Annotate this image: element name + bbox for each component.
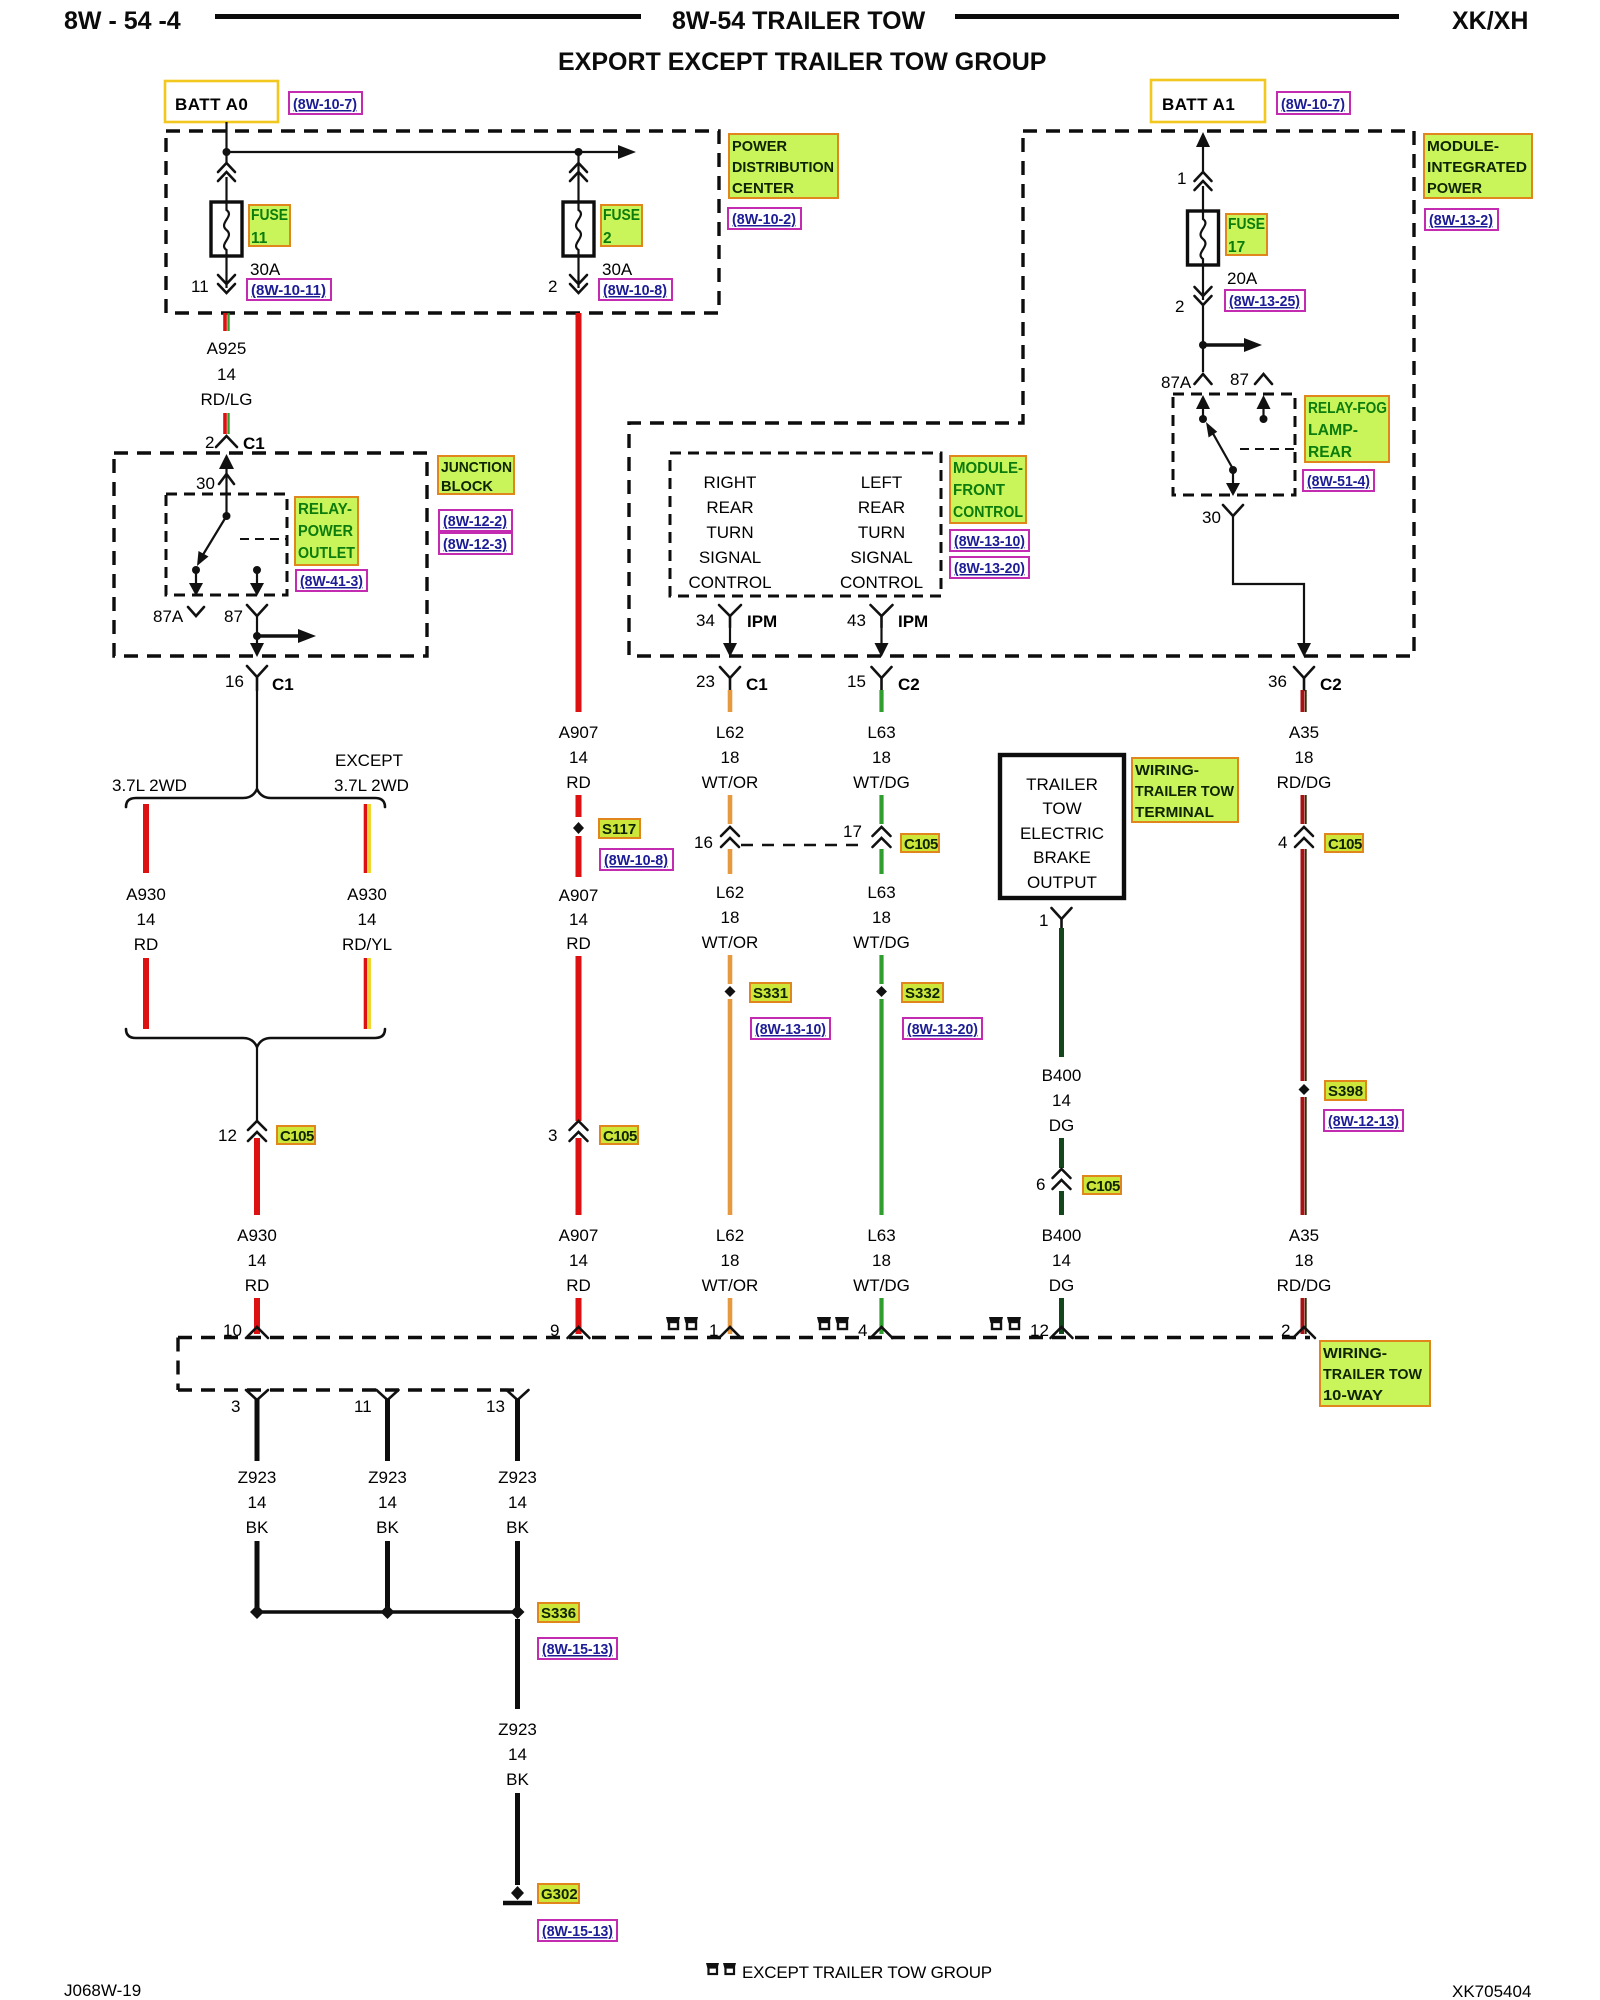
battery feed box BATT A1 (1151, 80, 1265, 122)
svg-text:RD: RD (245, 1276, 270, 1295)
power distribution center dashed box (166, 131, 719, 313)
splice S336 tie bar (250, 1605, 525, 1619)
connector chevrons above fuse 2 (570, 152, 587, 202)
wire label Z923 14 BK (2) (368, 1468, 407, 1537)
svg-text:10-WAY: 10-WAY (1323, 1387, 1383, 1404)
svg-text:REAR: REAR (1308, 444, 1352, 461)
svg-text:18: 18 (872, 748, 891, 767)
svg-text:ELECTRIC: ELECTRIC (1020, 824, 1104, 843)
connector pin 13 at 10-way (486, 1390, 529, 1416)
C105 harness dashed link (741, 844, 862, 847)
pin 87 connector (224, 605, 267, 645)
relay contact 87 arm (250, 566, 264, 596)
svg-text:A930: A930 (126, 885, 166, 904)
svg-text:FUSE: FUSE (251, 207, 288, 224)
wire L62 from C1-23 (728, 690, 733, 712)
svg-text:TERMINAL: TERMINAL (1135, 804, 1214, 821)
svg-text:11: 11 (354, 1397, 372, 1416)
svg-text:FUSE: FUSE (603, 207, 640, 224)
svg-text:REAR: REAR (706, 498, 753, 517)
callout C105 (pin 4) (1325, 834, 1363, 853)
footer legend marker icons (706, 1963, 736, 1974)
svg-text:RELAY-: RELAY- (298, 501, 352, 518)
svg-text:A925: A925 (207, 339, 247, 358)
svg-text:(8W-10-11): (8W-10-11) (251, 282, 326, 299)
svg-text:WT/DG: WT/DG (853, 773, 910, 792)
wire label L63 18 WT/DG (lower) (853, 1226, 910, 1295)
svg-text:L62: L62 (716, 883, 744, 902)
wire L63 to splice S332 (879, 955, 883, 984)
svg-text:16: 16 (225, 672, 244, 691)
wire label A35 18 RD/DG (lower) (1277, 1226, 1332, 1295)
svg-text:16: 16 (694, 833, 713, 852)
svg-text:87A: 87A (1161, 373, 1192, 392)
svg-text:WT/DG: WT/DG (853, 1276, 910, 1295)
svg-text:BK: BK (506, 1518, 529, 1537)
wire B400 to 10-way pin 12 (1059, 1298, 1064, 1334)
link 8W-10-7 (right) (1277, 92, 1350, 114)
svg-text:14: 14 (569, 910, 588, 929)
svg-text:TURN: TURN (706, 523, 753, 542)
svg-text:13: 13 (486, 1397, 505, 1416)
svg-text:C105: C105 (603, 1128, 637, 1145)
svg-text:CONTROL: CONTROL (688, 573, 771, 592)
svg-text:XK705404: XK705404 (1452, 1982, 1531, 2000)
link 8W-13-10 (S331) (751, 1018, 830, 1039)
svg-text:POWER: POWER (298, 523, 353, 540)
header rule left (215, 14, 641, 19)
wire label A35 18 RD/DG (upper) (1277, 723, 1332, 792)
svg-text:Z923: Z923 (498, 1468, 537, 1487)
svg-text:BRAKE: BRAKE (1033, 848, 1091, 867)
callout C105 (pin 12) (277, 1126, 315, 1145)
link 8W-10-11 (247, 279, 331, 300)
link 8W-12-3 (439, 533, 512, 554)
splice S117 (573, 822, 584, 834)
wire into JB pin 30 with arrowhead (219, 454, 234, 494)
wire exits JB with arrowhead (250, 643, 264, 657)
wire A930 lower left (RD) (143, 958, 149, 1029)
link 8W-13-25 (1225, 290, 1305, 311)
svg-text:BK: BK (246, 1518, 269, 1537)
svg-text:L63: L63 (867, 883, 895, 902)
wire Z923 lower 3 (515, 1541, 520, 1612)
link 8W-15-13 (G302) (538, 1920, 617, 1941)
svg-text:TOW: TOW (1042, 799, 1081, 818)
svg-text:3: 3 (231, 1397, 240, 1416)
svg-text:POWER: POWER (732, 138, 787, 155)
svg-text:RD: RD (566, 934, 591, 953)
svg-text:(8W-15-13): (8W-15-13) (542, 1923, 613, 1940)
svg-text:S331: S331 (753, 985, 788, 1002)
svg-text:EXCEPT: EXCEPT (335, 751, 403, 770)
svg-text:IPM: IPM (898, 612, 928, 631)
svg-text:RD/DG: RD/DG (1277, 773, 1332, 792)
battery feed box BATT A0 (165, 81, 278, 122)
IPM pin 34 connector (696, 605, 777, 631)
svg-text:(8W-13-10): (8W-13-10) (954, 533, 1025, 550)
svg-text:14: 14 (508, 1493, 527, 1512)
svg-text:4: 4 (1278, 833, 1287, 852)
wire A35 from C2-36 (RD/DG) (1303, 690, 1306, 712)
connector pin 9 at 10-way (550, 1321, 590, 1340)
node junction at PDC feed (223, 148, 231, 156)
relay pin 87 chevron (1230, 370, 1272, 389)
wire label B400 14 DG (upper) (1042, 1066, 1082, 1135)
svg-text:C105: C105 (1328, 836, 1362, 853)
svg-text:(8W-10-7): (8W-10-7) (1281, 96, 1345, 113)
wire B400 to C105 (1059, 1138, 1064, 1168)
svg-text:C1: C1 (746, 675, 768, 694)
svg-text:B400: B400 (1042, 1066, 1082, 1085)
wire Z923 drop 1 (255, 1399, 260, 1461)
svg-text:CENTER: CENTER (732, 180, 794, 197)
wire L62 below C105 (728, 849, 733, 874)
callout S398 (1325, 1081, 1366, 1100)
svg-text:B400: B400 (1042, 1226, 1082, 1245)
svg-text:87: 87 (224, 607, 243, 626)
svg-text:WT/OR: WT/OR (702, 933, 759, 952)
wire Z923 to ground lower (515, 1793, 520, 1885)
svg-text:MODULE-: MODULE- (1427, 138, 1499, 155)
svg-text:(8W-10-8): (8W-10-8) (603, 282, 667, 299)
svg-text:TRAILER TOW: TRAILER TOW (1135, 783, 1235, 800)
svg-text:2: 2 (1175, 297, 1184, 316)
svg-text:SIGNAL: SIGNAL (850, 548, 912, 567)
svg-text:14: 14 (569, 1251, 588, 1270)
svg-text:14: 14 (137, 910, 156, 929)
callout JUNCTION BLOCK (438, 456, 514, 495)
fuse F2 (563, 202, 594, 256)
svg-text:POWER: POWER (1427, 180, 1482, 197)
connector C105 pin 12 (218, 1121, 266, 1145)
svg-text:BATT A1: BATT A1 (1162, 95, 1235, 114)
splice S331 (725, 986, 736, 997)
svg-text:2: 2 (603, 230, 612, 247)
wire Z923 lower 2 (385, 1541, 390, 1612)
wire A907 down to C105 (576, 956, 582, 1121)
connector C2 pin 15 (847, 667, 920, 694)
wire PDC internal bus with arrow (227, 145, 637, 159)
svg-text:(8W-10-8): (8W-10-8) (604, 852, 668, 869)
wire from C1-16 down to split (256, 690, 258, 789)
pin 2 label (fuse 17) (1175, 297, 1184, 316)
svg-text:RELAY-FOG: RELAY-FOG (1308, 400, 1387, 417)
wire label A907 14 RD (upper) (559, 723, 599, 792)
svg-text:18: 18 (1295, 1251, 1314, 1270)
svg-text:3.7L 2WD: 3.7L 2WD (334, 776, 409, 795)
page subtitle (558, 48, 1046, 76)
link 8W-41-3 (296, 570, 367, 591)
connector chevrons above fuse 11 (218, 163, 235, 202)
svg-text:TRAILER: TRAILER (1026, 775, 1098, 794)
svg-text:BATT A0: BATT A0 (175, 95, 248, 114)
wire A35 to C105 (1303, 795, 1306, 824)
svg-text:IPM: IPM (747, 612, 777, 631)
turn signal control inner dashed box (670, 453, 941, 596)
wire label A907 14 RD (lower) (559, 1226, 599, 1295)
trailer tow electric brake output box (1000, 755, 1124, 898)
svg-text:LEFT: LEFT (861, 473, 903, 492)
svg-text:RD/DG: RD/DG (1277, 1276, 1332, 1295)
connector C105 pin 17 (843, 822, 891, 847)
wire L63 from C2-15 (879, 690, 883, 712)
svg-text:11: 11 (251, 230, 268, 247)
svg-text:DG: DG (1049, 1116, 1075, 1135)
wire Z923 drop 3 (515, 1399, 520, 1461)
wire L63 below splice (879, 999, 883, 1215)
svg-text:36: 36 (1268, 672, 1287, 691)
link 8W-12-2 (439, 510, 512, 531)
wire relay 30 to C2-36 (1233, 516, 1311, 657)
svg-text:87A: 87A (153, 607, 184, 626)
svg-text:12: 12 (218, 1126, 237, 1145)
connector C105 pin 4 (1278, 827, 1313, 852)
svg-text:CONTROL: CONTROL (953, 504, 1023, 521)
splice S332 (876, 986, 887, 997)
wire A907 stub below splice (576, 836, 582, 877)
connector chevrons below fuse 2 (570, 256, 587, 293)
connector C105 pin 6 (1036, 1169, 1071, 1194)
wire label L62 18 WT/OR (middle) (702, 883, 759, 952)
link 8W-13-20 (module) (950, 557, 1029, 578)
link 8W-12-13 (S398) (1324, 1110, 1403, 1131)
callout FUSE 2 (601, 205, 642, 247)
svg-text:2: 2 (548, 277, 557, 296)
svg-text:(8W-12-2): (8W-12-2) (443, 513, 507, 530)
connector chevrons below fuse 11 (218, 256, 235, 293)
wire L63 to C105 (879, 795, 883, 824)
wire A930 to 10-way pin 10 (254, 1298, 260, 1334)
link 8W-15-13 (S336) (538, 1638, 617, 1659)
svg-text:A930: A930 (347, 885, 387, 904)
svg-text:WT/DG: WT/DG (853, 933, 910, 952)
wire L62 to splice S331 (728, 955, 733, 984)
svg-text:(8W-13-2): (8W-13-2) (1429, 212, 1493, 229)
link 8W-51-4 (1303, 470, 1374, 491)
connector pin 10 at 10-way (223, 1321, 268, 1340)
svg-text:C1: C1 (243, 434, 265, 453)
pin 30 chevron (196, 474, 234, 493)
wire from BATT A0 into PDC (225, 122, 227, 165)
pin 11 label (191, 277, 209, 296)
wire label L63 18 WT/DG (upper) (853, 723, 910, 792)
svg-text:18: 18 (872, 1251, 891, 1270)
svg-text:3.7L 2WD: 3.7L 2WD (112, 776, 187, 795)
page header title center (672, 7, 926, 35)
svg-text:17: 17 (1228, 239, 1245, 256)
svg-text:MODULE-: MODULE- (953, 460, 1023, 477)
callout C105 (pin 6) (1083, 1176, 1121, 1195)
svg-text:C1: C1 (272, 675, 294, 694)
wire label A930 14 RD (126, 885, 166, 954)
connector C2 pin 36 (1268, 667, 1342, 694)
svg-text:(8W-12-3): (8W-12-3) (443, 536, 507, 553)
svg-text:11: 11 (191, 277, 209, 296)
svg-text:XK/XH: XK/XH (1452, 7, 1528, 35)
wire A925 stub 2 (225, 413, 229, 434)
ground G302 symbol (503, 1886, 532, 1903)
svg-text:RIGHT: RIGHT (704, 473, 757, 492)
svg-text:23: 23 (696, 672, 715, 691)
svg-text:(8W-15-13): (8W-15-13) (542, 1641, 613, 1658)
svg-text:A930: A930 (237, 1226, 277, 1245)
svg-text:RD/LG: RD/LG (201, 390, 253, 409)
wire IPM 43 exits with arrowhead (875, 627, 889, 657)
svg-text:G302: G302 (541, 1886, 578, 1903)
svg-text:43: 43 (847, 611, 866, 630)
label RIGHT REAR TURN SIGNAL CONTROL (688, 473, 771, 592)
callout MODULE-INTEGRATED POWER (1424, 134, 1532, 198)
svg-text:C105: C105 (1086, 1178, 1120, 1195)
svg-text:14: 14 (217, 365, 236, 384)
callout FUSE 11 (249, 205, 290, 247)
svg-text:C2: C2 (1320, 675, 1342, 694)
connector pin 4 at 10-way (858, 1321, 893, 1340)
svg-text:18: 18 (721, 1251, 740, 1270)
svg-text:A35: A35 (1289, 723, 1319, 742)
svg-text:(8W-12-13): (8W-12-13) (1328, 1113, 1399, 1130)
svg-text:(8W-51-4): (8W-51-4) (1307, 473, 1370, 490)
connector pin 11 at 10-way (354, 1390, 399, 1416)
relay-fog lamp rear dashed box (1173, 394, 1295, 495)
wire label A925 14 RD/LG (201, 339, 253, 409)
relay K2 coil dashed link (1240, 448, 1295, 450)
svg-text:DISTRIBUTION: DISTRIBUTION (732, 159, 834, 176)
relay K1 internals: pivot and movable contact (197, 494, 231, 566)
wire label A930 14 RD/YL (342, 885, 392, 954)
connector C1 pin 16 (225, 666, 294, 694)
svg-text:2: 2 (205, 433, 214, 452)
svg-text:30: 30 (196, 474, 215, 493)
svg-text:14: 14 (1052, 1091, 1071, 1110)
connector pin 2 at 10-way (1281, 1321, 1315, 1340)
fuse 2 rating 30A (602, 260, 633, 279)
svg-text:A907: A907 (559, 723, 599, 742)
page header title right (1452, 7, 1528, 35)
wire B400 below C105 (1059, 1191, 1064, 1215)
link 8W-10-8 (fuse 2) (599, 279, 672, 300)
wire IPM 34 exits with arrowhead (723, 627, 737, 657)
link 8W-13-10 (module) (950, 530, 1029, 551)
svg-text:(8W-41-3): (8W-41-3) (300, 573, 363, 590)
page header title left (64, 7, 181, 35)
svg-text:14: 14 (1052, 1251, 1071, 1270)
wire to BATT A1 with arrowhead (1196, 132, 1210, 172)
connector pin 3 at 10-way (231, 1390, 268, 1416)
svg-text:18: 18 (872, 908, 891, 927)
svg-text:A35: A35 (1289, 1226, 1319, 1245)
wire label Z923 14 BK (1) (238, 1468, 277, 1537)
callout RELAY-FOG LAMP-REAR (1305, 396, 1389, 462)
svg-text:TRAILER TOW: TRAILER TOW (1323, 1366, 1423, 1383)
brace merge bottom (126, 1029, 385, 1047)
svg-text:C105: C105 (904, 836, 938, 853)
svg-text:WIRING-: WIRING- (1323, 1345, 1387, 1362)
svg-text:J068W-19: J068W-19 (64, 1981, 141, 2000)
except-trailer-tow marker icons (pin 4) (817, 1317, 849, 1329)
wire label Z923 14 BK (3) (498, 1468, 537, 1537)
node junction at 87 with feed arrow (253, 629, 316, 643)
svg-text:Z923: Z923 (368, 1468, 407, 1487)
svg-text:RD: RD (134, 935, 159, 954)
svg-text:14: 14 (248, 1493, 267, 1512)
svg-text:L62: L62 (716, 1226, 744, 1245)
svg-text:6: 6 (1036, 1175, 1045, 1194)
svg-text:EXCEPT TRAILER TOW GROUP: EXCEPT TRAILER TOW GROUP (742, 1963, 992, 1982)
svg-text:WT/OR: WT/OR (702, 1276, 759, 1295)
relay contact 87A arm (189, 566, 203, 596)
fuse 11 rating 30A (250, 260, 281, 279)
wire label A907 14 RD (middle) (559, 886, 599, 953)
link 8W-10-2 (728, 208, 801, 229)
svg-text:WIRING-: WIRING- (1135, 762, 1199, 779)
svg-text:(8W-10-2): (8W-10-2) (732, 211, 796, 228)
callout POWER DISTRIBUTION CENTER (729, 134, 838, 198)
footer sheet code left (64, 1981, 141, 2000)
connector C105 pin 3 (548, 1121, 588, 1145)
wire B400 from brake output (DG) (1059, 928, 1064, 1057)
relay K2 fixed contact 87 (1257, 395, 1271, 423)
wire L63 to 10-way pin 4 (879, 1298, 883, 1334)
relay K2 movable contact arm (1196, 395, 1233, 469)
junction block dashed box (114, 453, 427, 656)
branch option label 3.7L 2WD (112, 776, 187, 795)
wire A925 stub below PDC (RD/LG) (225, 313, 229, 331)
svg-text:S336: S336 (541, 1605, 576, 1622)
relay coil dashed link (240, 538, 287, 540)
link 8W-13-2 (1425, 209, 1498, 230)
wire A907 to 10-way pin 9 (576, 1298, 582, 1334)
svg-text:(8W-13-20): (8W-13-20) (907, 1021, 978, 1038)
callout G302 (538, 1884, 579, 1903)
IPM pin 43 connector (847, 605, 928, 631)
svg-text:20A: 20A (1227, 269, 1258, 288)
splice S398 (1299, 1084, 1310, 1095)
connector C1 pin 2 (205, 433, 265, 453)
wire A35 below splice (1303, 1097, 1306, 1215)
connector chevrons below fuse 17 (1195, 265, 1212, 305)
except-trailer-tow marker icons (pin 1) (666, 1317, 698, 1329)
wire A907 from PDC down (576, 313, 582, 712)
svg-text:18: 18 (1295, 748, 1314, 767)
wire A35 to 10-way pin 2 (1303, 1298, 1306, 1334)
connector pin 12 at 10-way (1030, 1321, 1073, 1340)
svg-text:Z923: Z923 (238, 1468, 277, 1487)
pin 2 label (548, 277, 557, 296)
wire fuse 17 to relay with feed arrow node (1199, 305, 1262, 372)
fuse 17 rating 20A (1227, 269, 1258, 288)
svg-text:SIGNAL: SIGNAL (699, 548, 761, 567)
svg-text:14: 14 (508, 1745, 527, 1764)
svg-text:L62: L62 (716, 723, 744, 742)
wire label L62 18 WT/OR (lower) (702, 1226, 759, 1295)
callout MODULE-FRONT CONTROL (950, 456, 1026, 523)
link 8W-10-7 (left) (289, 92, 362, 114)
wire Z923 drop 2 (385, 1399, 390, 1461)
svg-text:(8W-10-7): (8W-10-7) (293, 96, 357, 113)
relay pin 30 connector (1202, 505, 1243, 527)
svg-text:18: 18 (721, 748, 740, 767)
label LEFT REAR TURN SIGNAL CONTROL (840, 473, 923, 592)
svg-text:S398: S398 (1328, 1083, 1363, 1100)
fuse F17 (1188, 211, 1219, 265)
svg-text:RD/YL: RD/YL (342, 935, 392, 954)
svg-text:EXPORT EXCEPT TRAILER TOW GROU: EXPORT EXCEPT TRAILER TOW GROUP (558, 48, 1046, 76)
connector pin 1 at 10-way (709, 1321, 741, 1340)
svg-text:14: 14 (358, 910, 377, 929)
svg-text:(8W-13-10): (8W-13-10) (755, 1021, 826, 1038)
